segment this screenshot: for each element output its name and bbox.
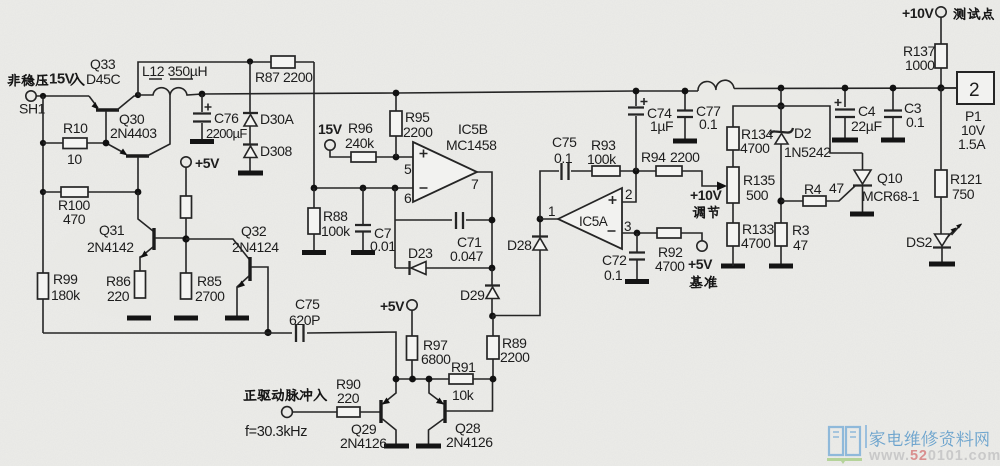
svg-text:1.5A: 1.5A <box>958 136 986 152</box>
svg-text:2N4124: 2N4124 <box>232 239 279 255</box>
resistor R94 <box>656 166 682 176</box>
wire to P1 <box>941 87 957 89</box>
capacitor C75 620P <box>296 324 304 342</box>
resistor R100 <box>43 191 138 193</box>
resistor R97 <box>411 310 413 379</box>
node C77 top <box>682 88 689 95</box>
svg-text:0.1: 0.1 <box>604 267 623 283</box>
resistor R4 <box>803 196 826 206</box>
svg-text:6: 6 <box>404 190 412 206</box>
svg-text:1000: 1000 <box>905 57 935 73</box>
node IC5A pin1 <box>537 216 544 223</box>
svg-text:R87 2200: R87 2200 <box>255 69 313 85</box>
resistor R121 <box>940 88 942 234</box>
svg-text:0.01: 0.01 <box>370 238 396 254</box>
node C76 <box>199 91 206 98</box>
svg-text:L12 350µH: L12 350µH <box>142 63 207 79</box>
node pin3/C72 <box>634 230 641 237</box>
svg-text:6800: 6800 <box>421 351 451 367</box>
wire R4 to Q10 gate <box>826 186 855 201</box>
svg-text:+5V: +5V <box>688 256 713 272</box>
svg-text:+10V: +10V <box>902 5 935 21</box>
svg-text:15V: 15V <box>318 121 343 137</box>
resistor above node (unlabeled) <box>181 196 192 218</box>
label 测试点 <box>954 8 994 20</box>
svg-text:SH1: SH1 <box>19 101 46 117</box>
capacitor C77 0.1 <box>684 91 686 139</box>
svg-text:500: 500 <box>746 187 769 203</box>
capacitor C76 2200µF <box>201 94 203 139</box>
wire to D28 branch <box>493 250 541 316</box>
svg-text:220: 220 <box>337 390 360 406</box>
resistor R3 <box>775 223 787 246</box>
resistor R85 <box>181 273 192 299</box>
watermark book icon <box>829 427 860 455</box>
resistor R87 <box>271 56 295 68</box>
svg-text:10k: 10k <box>452 387 475 403</box>
ground D308 <box>238 171 263 176</box>
wire SH1 to Q33 emitter <box>36 95 89 97</box>
ground R85 <box>174 316 198 321</box>
terminal pulse input <box>282 407 293 418</box>
wire R134 to R135 <box>732 150 734 167</box>
node D23 right <box>489 265 496 272</box>
svg-text:+5V: +5V <box>195 155 220 171</box>
svg-text:+5V: +5V <box>380 298 405 314</box>
transistor Q33 <box>89 96 138 143</box>
svg-text:2200: 2200 <box>500 349 530 365</box>
node Q33 base / Q30 emitter <box>103 140 110 147</box>
svg-text:5: 5 <box>404 161 412 177</box>
wire to R134 top <box>733 106 781 127</box>
label 非稳压15V入 (unregulated 15V in) <box>8 71 85 88</box>
svg-text:4700: 4700 <box>741 235 771 251</box>
resistor R96 <box>351 152 376 162</box>
svg-text:4700: 4700 <box>655 258 685 274</box>
svg-text:2200µF: 2200µF <box>206 126 247 141</box>
svg-text:R94: R94 <box>641 149 666 165</box>
wire bottom bus <box>43 332 396 379</box>
svg-text:C75: C75 <box>295 296 320 312</box>
watermark 家电维修资料网 <box>870 430 989 447</box>
svg-text:47: 47 <box>829 180 844 196</box>
node Q30 base / Q31 collector <box>135 189 142 196</box>
svg-text:IC5A: IC5A <box>579 214 608 229</box>
label 正驱动脉冲入 <box>244 388 327 401</box>
transistor Q31 <box>138 192 186 271</box>
ground C76 <box>190 139 214 144</box>
SCR Q10 <box>854 170 871 184</box>
main output rail <box>202 88 957 94</box>
wire pin6 <box>314 187 413 189</box>
svg-text:2N4126: 2N4126 <box>446 434 493 450</box>
svg-text:MCR68-1: MCR68-1 <box>862 188 920 204</box>
wire input to R90 <box>292 411 337 413</box>
svg-text:Q10: Q10 <box>877 170 903 186</box>
ground R3 <box>769 264 793 269</box>
svg-text:10: 10 <box>67 151 82 167</box>
wire left vertical bus <box>42 96 44 333</box>
resistor R133 <box>727 223 739 246</box>
wire IC5B output down <box>477 172 492 268</box>
wire D30A chain <box>249 62 251 171</box>
node C71 right <box>489 217 496 224</box>
wire pin2 up <box>622 174 636 202</box>
wire R135 to R133 <box>732 203 734 223</box>
svg-text:D29: D29 <box>460 287 485 303</box>
transistor Q29 <box>381 379 396 444</box>
svg-text:2: 2 <box>969 80 980 101</box>
op-amp IC5A <box>558 188 622 249</box>
capacitor C4 22µF <box>844 88 846 138</box>
svg-text:2700: 2700 <box>195 288 225 304</box>
diode D308 <box>243 143 258 145</box>
resistor R92 <box>657 228 681 238</box>
capacitor C3 0.1 <box>892 88 894 138</box>
resistor R86 <box>135 271 146 298</box>
svg-text:Q31: Q31 <box>99 222 125 238</box>
svg-text:0.1: 0.1 <box>699 116 718 132</box>
wire D23 feedback loop <box>395 188 492 268</box>
svg-text:0.047: 0.047 <box>450 248 484 264</box>
svg-text:DS2: DS2 <box>906 234 933 250</box>
diode D29 <box>491 268 493 316</box>
svg-text:2N4403: 2N4403 <box>110 125 157 141</box>
inductor L12 <box>138 88 202 95</box>
terminal +5V bottom <box>407 300 417 310</box>
capacitor C74 1µF <box>635 91 637 171</box>
capacitor C7 0.01 <box>362 188 364 252</box>
zener D2 <box>780 106 782 223</box>
transistor Q28 <box>429 379 493 444</box>
svg-text:R135: R135 <box>743 172 775 188</box>
wire R96 to pin5 <box>376 156 413 158</box>
svg-text:7: 7 <box>471 176 479 192</box>
node Q33 collector <box>135 92 141 98</box>
node C74 top <box>633 88 640 95</box>
ground C4 <box>832 138 858 143</box>
node R95 bottom / pin5 <box>393 154 400 161</box>
node pin6 left <box>311 185 318 192</box>
svg-text:4700: 4700 <box>740 140 770 156</box>
terminal SH1 <box>26 91 36 101</box>
wire R92 to +5V ref <box>681 233 702 241</box>
node C7 top <box>360 185 367 192</box>
terminal +5V left <box>181 157 191 167</box>
svg-text:0.1: 0.1 <box>554 150 573 166</box>
ground C77 <box>673 139 697 144</box>
node Q32 collector at bottom bus <box>264 329 271 336</box>
node Q31/Q32 base junction <box>182 235 189 242</box>
svg-text:1: 1 <box>548 204 555 219</box>
svg-text:R86: R86 <box>106 273 131 289</box>
svg-text:180k: 180k <box>51 287 81 303</box>
terminal +5V 基准 <box>697 241 707 251</box>
node D30A top branch <box>247 58 253 64</box>
svg-text:R91: R91 <box>451 359 476 375</box>
ground R88 <box>302 250 326 255</box>
svg-text:C4: C4 <box>858 103 876 119</box>
svg-text:www.520101.com: www.520101.com <box>868 448 1000 464</box>
svg-text:D30A: D30A <box>260 111 294 127</box>
ground Q32 emitter <box>225 316 249 321</box>
svg-text:1µF: 1µF <box>650 118 673 134</box>
node D23 loop top <box>392 185 399 192</box>
svg-text:100k: 100k <box>587 151 617 167</box>
node R10 left <box>40 140 46 146</box>
wire pin3 <box>622 232 657 234</box>
resistor R90 <box>337 407 360 417</box>
ground C7 <box>351 250 375 255</box>
wire 15V to R96 <box>330 150 351 157</box>
inductor on rail (unlabeled) <box>698 80 734 91</box>
watermark book base green <box>827 458 862 464</box>
feedback line C75 R93 <box>540 171 656 219</box>
potentiometer R135 <box>727 167 739 203</box>
node Q29 emitter <box>393 376 400 383</box>
svg-text:D2: D2 <box>794 125 812 141</box>
wire R90 to Q29 base <box>360 411 380 413</box>
wire rail down to D2 node <box>780 88 782 106</box>
svg-text:R121: R121 <box>950 171 982 187</box>
wire bottom rail y379 <box>396 378 493 380</box>
ground C72 <box>625 279 649 284</box>
svg-text:R99: R99 <box>53 271 78 287</box>
svg-text:R96: R96 <box>348 120 373 136</box>
node D2 bottom / R4 <box>777 197 784 204</box>
svg-text:2: 2 <box>625 187 632 202</box>
resistor R88 <box>313 188 315 252</box>
svg-text:R88: R88 <box>323 208 348 224</box>
svg-text:220: 220 <box>107 288 130 304</box>
resistor R10 <box>43 142 106 144</box>
svg-text:2N4142: 2N4142 <box>87 239 134 255</box>
wire +5V to divider <box>185 167 187 273</box>
svg-text:100k: 100k <box>321 223 351 239</box>
ground R86 <box>127 316 151 321</box>
node D29 bottom <box>489 313 496 320</box>
resistor R95 <box>395 93 397 157</box>
svg-text:D308: D308 <box>260 143 292 159</box>
node R97 bottom <box>409 376 416 383</box>
node R93/R94/C74 <box>633 168 640 175</box>
node rail R134 branch <box>778 85 785 92</box>
diode D23 <box>408 261 410 275</box>
svg-text:MC1458: MC1458 <box>446 137 497 153</box>
svg-text:R85: R85 <box>197 273 222 289</box>
resistor R89 <box>492 316 494 379</box>
svg-text:D23: D23 <box>408 245 433 261</box>
svg-text:Q32: Q32 <box>241 223 267 239</box>
wire to R4 <box>781 200 803 202</box>
watermark divider <box>865 425 867 448</box>
svg-text:22µF: 22µF <box>851 118 882 134</box>
svg-text:R3: R3 <box>792 222 810 238</box>
svg-text:D45C: D45C <box>86 71 120 87</box>
terminal 15V <box>325 140 335 150</box>
node R89 bottom <box>490 376 497 383</box>
LED DS2 <box>935 234 950 246</box>
svg-text:+10V: +10V <box>690 187 723 203</box>
node C4 top <box>842 85 849 92</box>
terminal +10V test point <box>936 7 946 17</box>
svg-text:IC5B: IC5B <box>458 121 488 137</box>
node R95 top on rail <box>393 90 400 97</box>
svg-text:620P: 620P <box>289 312 320 328</box>
capacitor C71 0.047 <box>456 212 463 229</box>
wire to R87 upper branch <box>138 62 314 188</box>
svg-text:R95: R95 <box>405 109 430 125</box>
wire R94 to R135 wiper <box>682 171 721 186</box>
svg-text:750: 750 <box>952 186 975 202</box>
node P1 junction <box>937 84 944 91</box>
svg-text:C75: C75 <box>552 134 577 150</box>
node at SH1 branch <box>40 93 46 99</box>
ground Q10 <box>850 212 874 217</box>
node R100 left <box>40 189 46 195</box>
transistor Q32 <box>186 239 268 332</box>
svg-text:2200: 2200 <box>403 124 433 140</box>
svg-text:0.1: 0.1 <box>906 114 925 130</box>
capacitor C72 0.1 <box>636 233 638 280</box>
svg-text:R10: R10 <box>63 120 88 136</box>
ground Q28 <box>416 444 441 449</box>
svg-text:47: 47 <box>793 237 808 253</box>
ground Q29 <box>384 444 409 449</box>
node C3 top <box>890 85 897 92</box>
svg-text:2200: 2200 <box>670 149 700 165</box>
node D2 top <box>777 102 784 109</box>
svg-text:C76: C76 <box>214 110 239 126</box>
svg-text:C72: C72 <box>602 252 627 268</box>
svg-text:R4: R4 <box>804 181 822 197</box>
resistor R99 <box>38 273 49 299</box>
svg-text:3: 3 <box>624 219 631 234</box>
op-amp IC5B <box>413 142 477 202</box>
svg-text:Q33: Q33 <box>90 56 116 72</box>
pin markers IC5A <box>608 196 617 231</box>
resistor R91 <box>449 374 473 384</box>
ground R133 <box>721 264 745 269</box>
svg-text:2N4126: 2N4126 <box>340 435 387 451</box>
connector P1 box <box>957 72 994 104</box>
transistor Q30 <box>106 95 170 192</box>
wire pin1 <box>540 218 558 220</box>
svg-text:D28: D28 <box>507 237 532 253</box>
node Q28 emitter <box>426 376 433 383</box>
svg-text:240k: 240k <box>345 135 375 151</box>
resistor R134 <box>727 127 739 150</box>
resistor R137 <box>940 17 942 88</box>
diode D30A <box>243 112 258 114</box>
svg-text:f=30.3kHz: f=30.3kHz <box>245 424 307 440</box>
resistor R93 <box>592 166 620 176</box>
capacitor C75 0.1 <box>562 163 569 180</box>
background tint blotches <box>50 73 830 320</box>
diode D28 <box>533 238 547 250</box>
ground C3 <box>881 138 905 143</box>
svg-text:470: 470 <box>63 211 86 227</box>
ground DS2 <box>929 262 955 267</box>
svg-text:1N5242: 1N5242 <box>784 144 831 160</box>
